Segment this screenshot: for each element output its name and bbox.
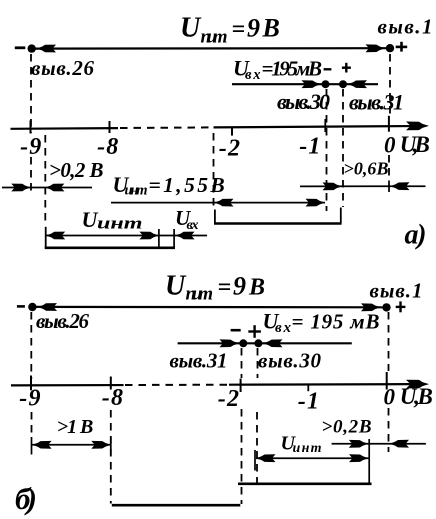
svg-text:инт: инт [97,213,143,233]
svg-text:0: 0 [384,132,396,157]
svg-text:= 195 мВ: = 195 мВ [292,310,380,334]
svg-text:=195мВ: =195мВ [262,57,323,81]
svg-text:В: В [248,275,265,301]
svg-text:вх: вх [187,218,199,233]
svg-text:U: U [82,207,99,232]
svg-text:-1: -1 [299,133,321,159]
svg-text:выв.31: выв.31 [170,349,228,373]
svg-text:инт: инт [293,441,322,456]
svg-text:б): б) [15,481,37,516]
svg-text:инт: инт [125,183,148,199]
svg-text:выв.26: выв.26 [31,56,95,80]
svg-text:9: 9 [247,14,260,43]
svg-text:U,В: U,В [400,384,433,409]
svg-text:U: U [165,271,187,302]
svg-text:выв.26: выв.26 [36,309,90,333]
svg-text:вх: вх [275,320,292,336]
svg-text:>1 В: >1 В [57,416,94,438]
svg-text:вх: вх [245,67,261,83]
svg-text:выв.30: выв.30 [258,349,322,373]
svg-text:=: = [232,17,246,43]
svg-text:выв.1: выв.1 [378,15,433,39]
svg-text:>0,2 В: >0,2 В [49,158,104,182]
svg-text:9: 9 [233,272,246,301]
svg-text:-8: -8 [97,134,119,160]
svg-text:В: В [262,14,280,43]
svg-text:выв.30: выв.30 [277,89,330,114]
svg-text:>0,2В: >0,2В [322,417,372,438]
svg-text:>0,6В: >0,6В [344,159,389,179]
svg-text:-9: -9 [20,134,42,160]
svg-text:пит: пит [201,27,228,48]
svg-text:-9: -9 [19,386,41,412]
svg-text:0: 0 [384,385,396,410]
svg-text:-1: -1 [298,389,320,415]
svg-text:U,В: U,В [400,132,430,157]
svg-text:-8: -8 [102,385,124,411]
svg-text:выв.1: выв.1 [370,279,423,303]
svg-text:выв.31: выв.31 [349,90,404,115]
svg-text:-2: -2 [218,386,240,412]
svg-text:=1,55В: =1,55В [149,173,228,197]
svg-text:U: U [180,13,202,44]
svg-text:а): а) [405,220,427,251]
svg-text:-2: -2 [219,136,241,162]
svg-text:пит: пит [186,284,214,305]
svg-text:=: = [218,275,232,301]
